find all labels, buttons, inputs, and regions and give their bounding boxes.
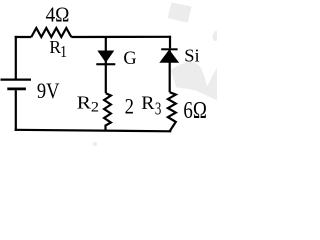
wire bottom: [15, 130, 172, 132]
battery B1 long plate: [1, 78, 32, 80]
svg-text:R: R: [77, 93, 92, 113]
svg-text:Si: Si: [184, 46, 199, 66]
resistor R2: [104, 93, 111, 131]
wire top-right segment: [71, 36, 171, 38]
wire left vertical upper: [15, 36, 17, 79]
diode D2 Si cathode bar: [161, 48, 177, 50]
svg-text:2: 2: [91, 99, 99, 115]
diode D2 Si triangle: [160, 50, 178, 62]
wire right vertical middle: [169, 50, 171, 92]
svg-text:R: R: [141, 93, 154, 113]
resistor R1: [31, 28, 71, 37]
wire right vertical upper: [169, 36, 171, 49]
svg-text:4Ω: 4Ω: [46, 3, 70, 26]
resistor R3: [168, 92, 176, 131]
wire top-left segment: [15, 36, 32, 38]
diode D1 G triangle: [98, 51, 113, 62]
svg-text:6Ω: 6Ω: [183, 97, 207, 124]
svg-text:9V: 9V: [37, 80, 60, 104]
wire left vertical lower: [15, 90, 17, 131]
svg-text:G: G: [123, 48, 136, 68]
battery B1 short plate: [7, 88, 26, 91]
svg-text:2: 2: [125, 95, 134, 119]
diode D1 G cathode bar: [96, 63, 115, 65]
wire middle branch vertical: [105, 36, 107, 93]
svg-text:1: 1: [60, 43, 67, 62]
svg-text:3: 3: [155, 99, 162, 119]
